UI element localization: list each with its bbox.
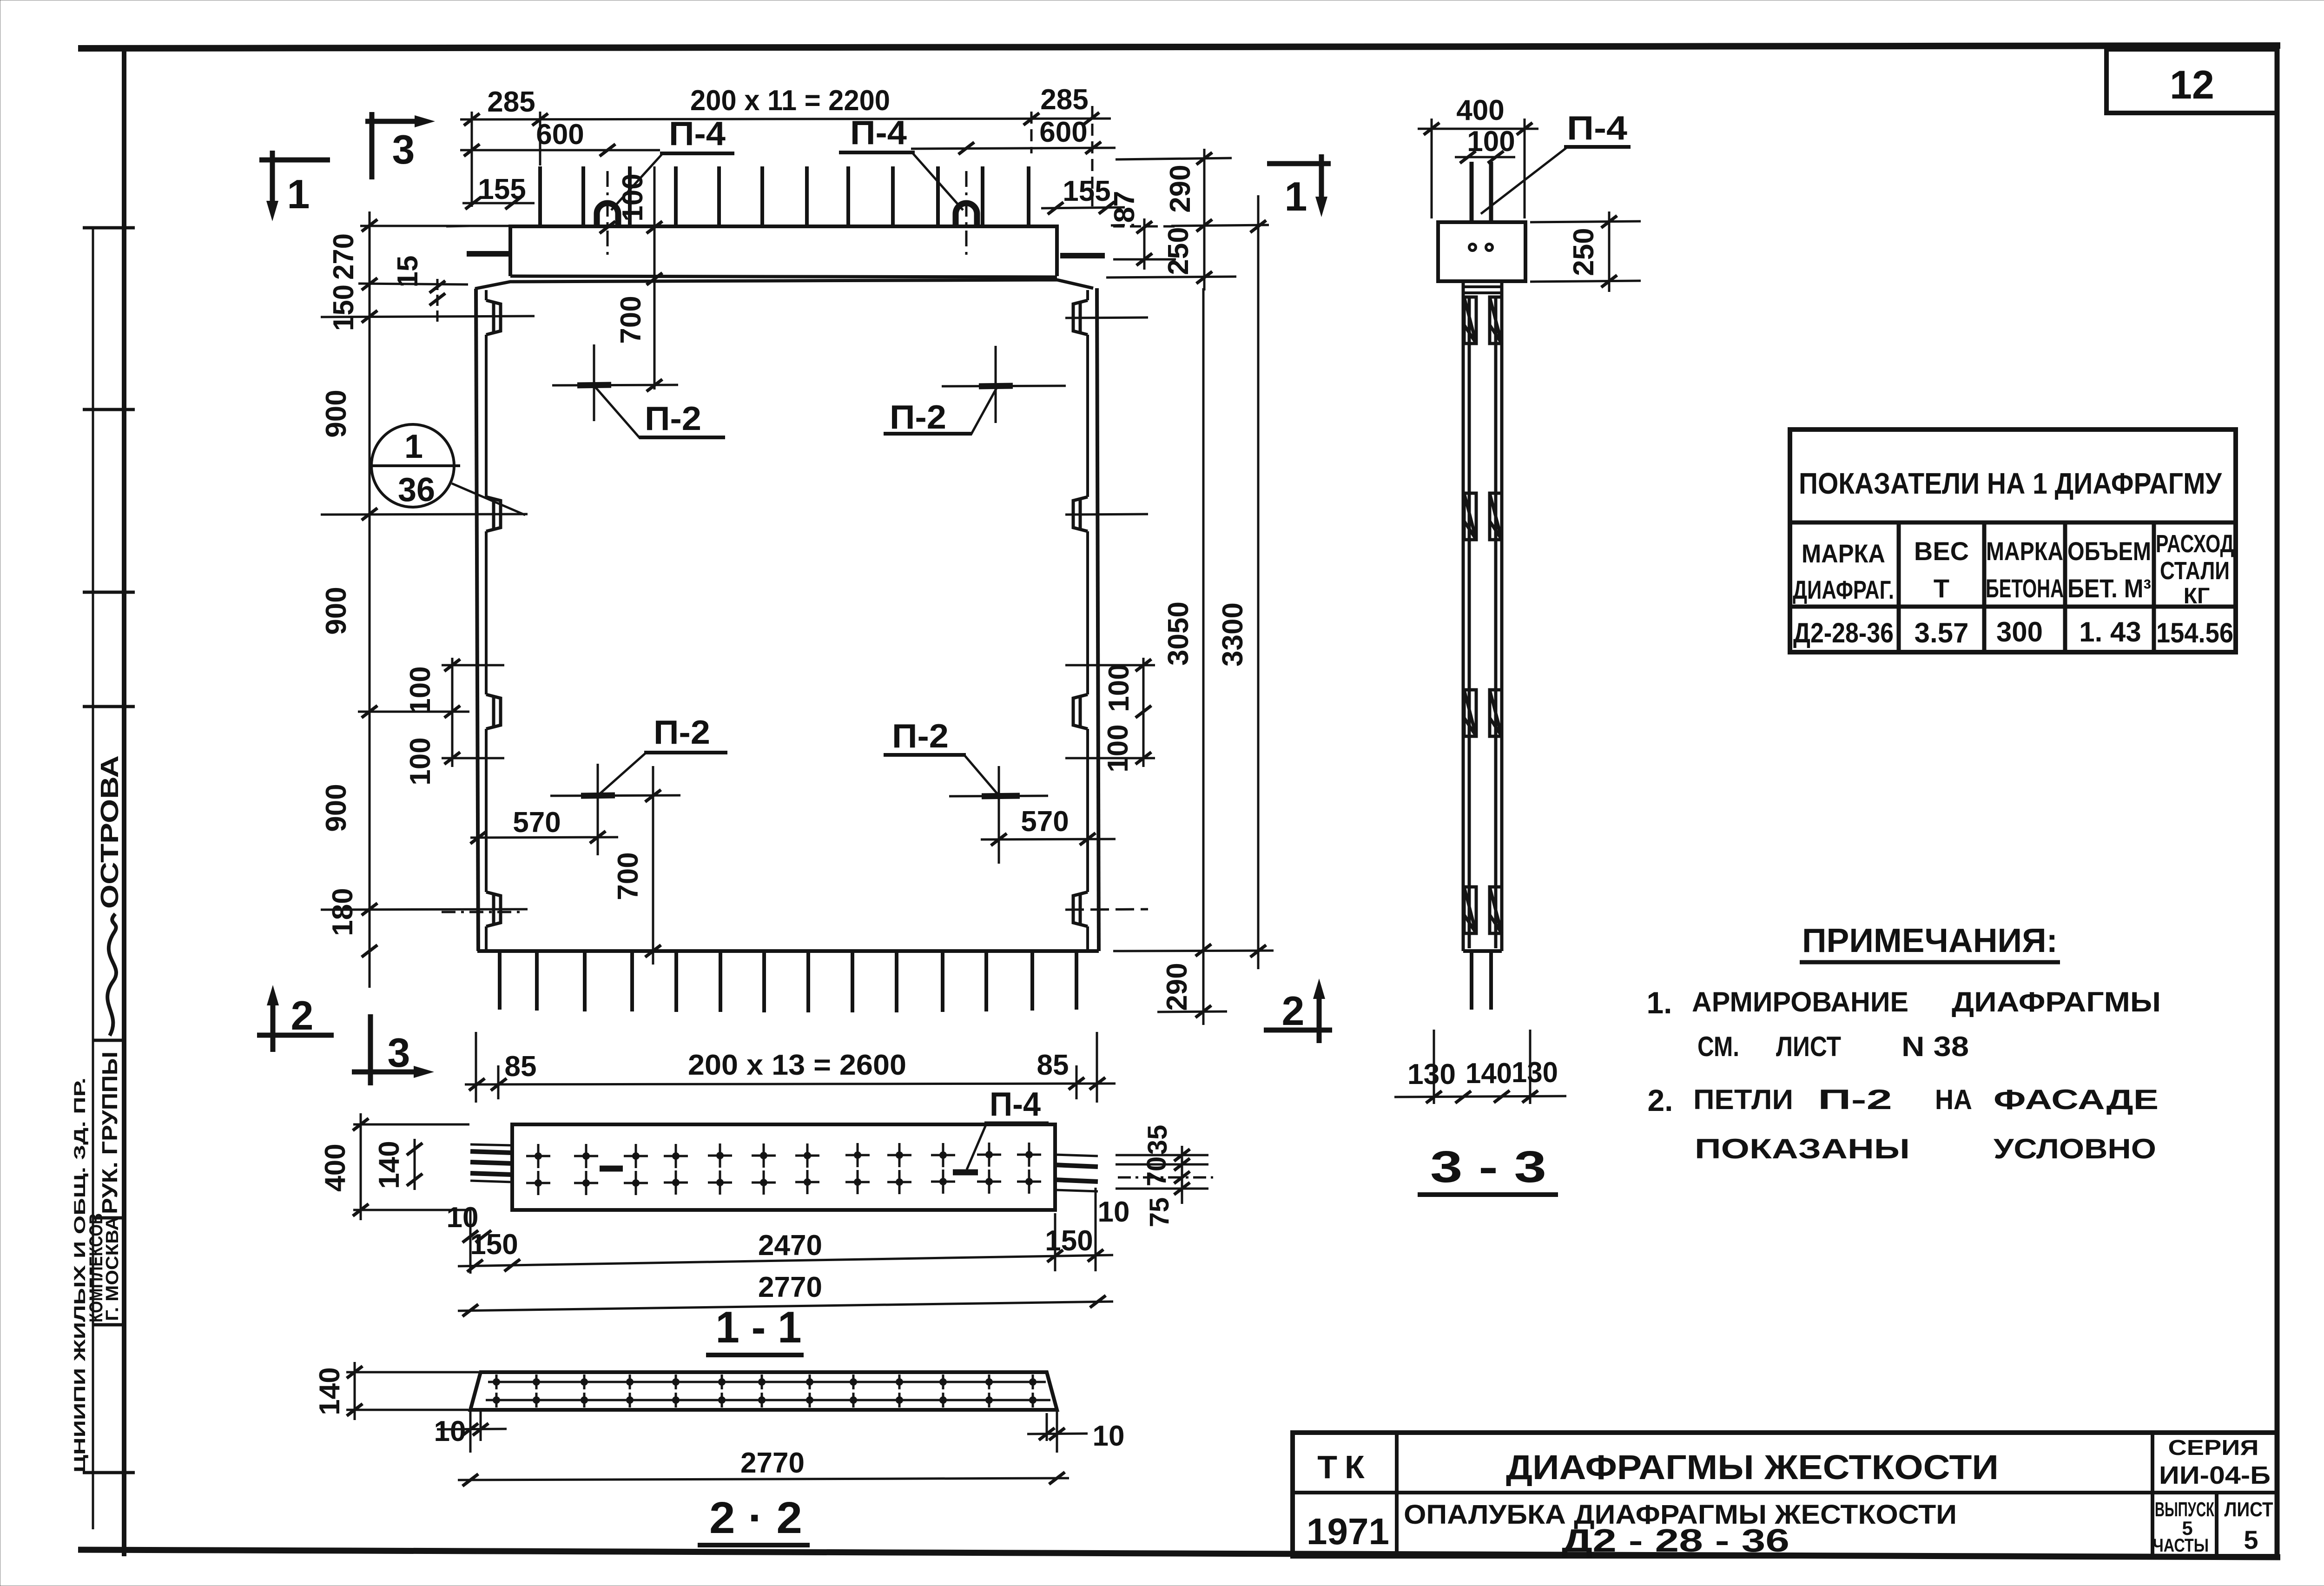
- right key 2: [1073, 497, 1088, 531]
- table col divider 2: [1982, 522, 1987, 652]
- dim 3300 ticks: [1250, 220, 1266, 232]
- 3-3 key pair 4: [1464, 887, 1502, 933]
- dim 290-250 line: [1203, 149, 1206, 291]
- label P2 bottom right underline: [884, 753, 966, 757]
- ext rebar top level: [1116, 158, 1232, 159]
- 2-2 dots row2: [493, 1393, 500, 1408]
- svg-text:285: 285: [487, 86, 535, 118]
- svg-text:РАСХОД: РАСХОД: [2156, 530, 2234, 558]
- ext line 600L end: [539, 112, 541, 165]
- svg-text:75: 75: [1144, 1197, 1175, 1228]
- label P2 top left underline: [639, 436, 725, 439]
- label P4 left leader: [611, 154, 662, 210]
- 3-3 top block: [1438, 222, 1525, 281]
- 1-1 ext right bar: [1095, 1188, 1097, 1271]
- left 100 pair ext a: [442, 664, 504, 667]
- left chain ext key1: [321, 316, 535, 317]
- 1-1 ext right edge: [1054, 1213, 1056, 1271]
- stamp cell line 1: [83, 705, 135, 708]
- svg-text:ЧАСТЬI: ЧАСТЬI: [2153, 1535, 2209, 1556]
- left stub bar beside beam: [467, 251, 508, 257]
- title block col divider 3: [2215, 1493, 2218, 1556]
- svg-text:200 x 13 = 2600: 200 x 13 = 2600: [688, 1049, 906, 1081]
- 3-3 key pair 2: [1464, 493, 1502, 540]
- svg-text:12: 12: [2170, 63, 2214, 107]
- title block col divider 1: [1395, 1433, 1399, 1556]
- top beam outline: [510, 226, 1057, 276]
- svg-text:П-4: П-4: [850, 114, 907, 152]
- dim 250 tick bottom: [1196, 271, 1212, 284]
- svg-text:1: 1: [287, 171, 310, 217]
- panel body left inner edge: [485, 290, 488, 950]
- dim row2 left ticks: [464, 144, 480, 156]
- margin inner line: [92, 228, 94, 1529]
- stamp cell line 5: [83, 1471, 135, 1474]
- svg-text:285: 285: [1040, 84, 1088, 116]
- label P2 bottom left leader: [600, 753, 645, 794]
- left key 4: [486, 892, 501, 926]
- dim 87 ticks: [1136, 221, 1152, 233]
- stamp cell line 3: [93, 1216, 124, 1220]
- svg-text:УСЛОВНО: УСЛОВНО: [1994, 1133, 2156, 1164]
- svg-text:ОСТРОВА: ОСТРОВА: [96, 755, 124, 909]
- dim 570 left line: [470, 837, 618, 838]
- svg-text:ДИАФРАГМЫ: ДИАФРАГМЫ: [1952, 986, 2161, 1018]
- svg-text:570: 570: [1021, 806, 1069, 838]
- 3-3 dim 400 ticks: [1424, 123, 1439, 135]
- 1-1 lower dim line: [458, 1255, 1113, 1266]
- 1-1 title underline: [706, 1353, 804, 1357]
- right 100 pair ext a: [1065, 664, 1155, 667]
- table col divider 3: [2063, 522, 2067, 652]
- label P4 left underline: [660, 152, 734, 155]
- loop centerline right: [965, 171, 968, 260]
- left key 3: [486, 694, 501, 729]
- 3-3 dim 250 ticks: [1601, 216, 1617, 228]
- left 100 pair line: [451, 658, 454, 767]
- ext line 285R start dashed: [1030, 112, 1033, 153]
- P2 marker bottom left: [550, 764, 680, 855]
- dim 155 right ticks: [1048, 202, 1063, 214]
- 3-3 dim 250 ext bottom: [1530, 281, 1641, 282]
- left chain ext bottom dashdot: [442, 911, 524, 913]
- svg-text:Д2 - 28 - 36: Д2 - 28 - 36: [1562, 1522, 1789, 1559]
- right 100 pair ext b: [1065, 757, 1155, 760]
- svg-text:1 - 1: 1 - 1: [716, 1302, 802, 1352]
- svg-text:3 - 3: 3 - 3: [1430, 1142, 1546, 1192]
- right stub bar beside beam: [1060, 253, 1105, 258]
- right 100 pair ticks: [1136, 659, 1151, 671]
- dim 15 ticks: [429, 281, 445, 293]
- left key 1: [486, 300, 501, 335]
- ext beam top right: [1171, 225, 1269, 226]
- svg-text:3050: 3050: [1162, 601, 1195, 666]
- 3-3 dim 100 line: [1455, 156, 1515, 159]
- section mark 3 top-left: [365, 112, 425, 179]
- dim 700 bottom ticks: [645, 790, 661, 802]
- section mark 2 bottom-right: [1264, 988, 1332, 1043]
- svg-text:150: 150: [328, 284, 360, 331]
- fold tick 3: [83, 591, 135, 594]
- svg-text:3: 3: [392, 126, 415, 172]
- svg-text:БЕТ. М³: БЕТ. М³: [2067, 574, 2151, 603]
- 3-3 dim 400 line: [1418, 128, 1538, 130]
- svg-text:1.: 1.: [1646, 985, 1672, 1020]
- svg-text:1: 1: [404, 428, 423, 465]
- 1-1 right small dims ext: [1116, 1155, 1208, 1164]
- svg-text:БЕТОНА: БЕТОНА: [1986, 574, 2064, 603]
- dim bottom ticks: [469, 1078, 485, 1090]
- 1-1 dim 400 ticks: [353, 1118, 369, 1130]
- svg-text:400: 400: [319, 1143, 351, 1191]
- ext panel bottom right: [1113, 951, 1274, 951]
- ext bottom left outer: [475, 1032, 477, 1103]
- svg-text:СЕРИЯ: СЕРИЯ: [2168, 1435, 2259, 1460]
- dim 87 ext bottom: [1113, 258, 1176, 261]
- label P2 top left leader: [595, 387, 640, 438]
- svg-text:130: 130: [1512, 1057, 1558, 1089]
- 3-3 label P4 leader: [1481, 148, 1566, 214]
- left chain ticks: [362, 219, 377, 231]
- left chain ext beam top: [360, 225, 509, 227]
- ext rebar bottom level: [1157, 1011, 1227, 1012]
- 1-1 left bars: [470, 1151, 512, 1175]
- 1-1 right small dim ticks: [1174, 1149, 1190, 1161]
- 1-1 dim 140 ticks: [407, 1143, 423, 1155]
- svg-text:130: 130: [1407, 1058, 1456, 1090]
- 1-1 dim 2770 line: [458, 1302, 1113, 1311]
- dim 700 bottom line: [652, 766, 654, 965]
- panel body right outer edge: [1097, 288, 1099, 951]
- title block col divider 2: [2151, 1433, 2154, 1556]
- dim 87 line: [1143, 218, 1146, 270]
- svg-text:ОБЪЕМ: ОБЪЕМ: [2067, 536, 2151, 566]
- svg-text:100: 100: [404, 737, 436, 785]
- left chain line: [369, 211, 371, 988]
- svg-text:900: 900: [320, 784, 352, 832]
- 1-1 body rect: [512, 1124, 1055, 1210]
- svg-text:250: 250: [1162, 227, 1195, 275]
- left border: [122, 46, 126, 1556]
- svg-text:5: 5: [2244, 1525, 2258, 1554]
- table outer frame: [1790, 430, 2236, 652]
- panel body right inner edge: [1086, 290, 1089, 950]
- dim 15 line dashed: [436, 279, 439, 322]
- 1-1 right small dims ext2: [1116, 1188, 1208, 1190]
- label P4 right underline: [839, 151, 915, 154]
- dim row1 line: [460, 119, 1111, 119]
- svg-text:ПРИМЕЧАНИЯ:: ПРИМЕЧАНИЯ:: [1802, 922, 2058, 959]
- svg-text:2 · 2: 2 · 2: [709, 1493, 802, 1543]
- dim 155 left line: [462, 202, 535, 205]
- svg-text:700: 700: [612, 852, 644, 900]
- svg-text:П-2: П-2: [1818, 1084, 1892, 1115]
- page number box: [2106, 49, 2277, 113]
- svg-text:Т: Т: [1934, 574, 1949, 603]
- svg-text:ЛИСТ: ЛИСТ: [2225, 1498, 2273, 1521]
- dim 3050 line: [1202, 288, 1205, 1025]
- dim 155 right line: [1041, 207, 1125, 208]
- svg-text:900: 900: [320, 587, 352, 634]
- svg-text:150: 150: [1045, 1225, 1093, 1257]
- svg-text:600: 600: [536, 119, 584, 151]
- notes title underline: [1800, 960, 2060, 965]
- 1-1 right bars: [1055, 1165, 1098, 1182]
- 1-1 loop section dash right: [953, 1170, 978, 1176]
- svg-text:155: 155: [478, 173, 526, 205]
- ext bottom right outer: [1096, 1032, 1098, 1103]
- svg-text:МАРКА: МАРКА: [1802, 539, 1885, 568]
- right key 4: [1073, 892, 1088, 926]
- 1-1 dim 140 line: [414, 1139, 416, 1190]
- label P2 top right underline: [884, 432, 972, 436]
- svg-text:570: 570: [513, 806, 561, 839]
- panel body left outer edge: [476, 289, 478, 951]
- label P2 top right leader: [971, 388, 997, 435]
- 1-1 right small dims dashdot: [1118, 1176, 1213, 1179]
- right border: [2275, 46, 2280, 1557]
- 2-2 dim 10 left ticks: [470, 1410, 481, 1453]
- svg-text:1. 43: 1. 43: [2079, 616, 2141, 648]
- svg-text:15: 15: [392, 256, 424, 288]
- top rebars: [540, 166, 1029, 226]
- svg-text:85: 85: [1037, 1049, 1069, 1081]
- 1-1 rebar markers row2: [526, 1171, 550, 1195]
- svg-text:200 x 11 = 2200: 200 x 11 = 2200: [690, 85, 890, 117]
- svg-text:ЛИСТ: ЛИСТ: [1776, 1031, 1841, 1062]
- table col divider 1: [1897, 522, 1901, 652]
- bottom rebars: [500, 951, 1076, 1012]
- svg-text:100: 100: [404, 666, 436, 714]
- svg-text:900: 900: [320, 390, 352, 437]
- ext bottom left bar: [497, 1065, 500, 1099]
- 3-3 dim 100 ticks: [1460, 151, 1476, 163]
- 1-1 dim 10 left ticks: [469, 1210, 472, 1274]
- dim 290 bottom ticks: [1195, 1005, 1211, 1018]
- ext beam bottom right: [1106, 277, 1236, 278]
- svg-text:Д2-28-36: Д2-28-36: [1793, 617, 1894, 648]
- svg-text:85: 85: [505, 1051, 537, 1083]
- svg-text:250: 250: [1568, 228, 1600, 276]
- 3-3 stem bottom: [1463, 949, 1502, 953]
- svg-text:3.57: 3.57: [1915, 617, 1969, 648]
- dim row2 right line: [911, 148, 1116, 149]
- title block outer: [1293, 1433, 2277, 1556]
- svg-text:N 38: N 38: [1901, 1031, 1969, 1062]
- left 100 pair ext b: [442, 757, 504, 760]
- dim row2 left line: [460, 149, 660, 152]
- 1-1 rebar markers row1: [526, 1144, 550, 1168]
- svg-text:ПОКАЗАТЕЛИ НА 1 ДИАФРАГМУ: ПОКАЗАТЕЛИ НА 1 ДИАФРАГМУ: [1799, 467, 2222, 500]
- left chain ext key3: [358, 711, 469, 713]
- svg-text:1971: 1971: [1307, 1511, 1389, 1552]
- svg-text:СМ.: СМ.: [1697, 1031, 1739, 1062]
- svg-text:ПОКАЗАНЫ: ПОКАЗАНЫ: [1695, 1133, 1910, 1164]
- svg-text:2770: 2770: [740, 1447, 805, 1479]
- P2 marker top left: [552, 344, 678, 421]
- 2-2 dim 140 ext: [346, 1372, 479, 1410]
- dim 570 right line: [981, 839, 1116, 839]
- 3-3 key pair 1: [1464, 297, 1502, 344]
- 3-3 key pair 3: [1464, 690, 1502, 736]
- svg-text:Г. МОСКВА: Г. МОСКВА: [103, 1216, 122, 1321]
- ext line right top dashed: [1091, 106, 1094, 209]
- stamp cell line 2: [93, 1039, 124, 1042]
- 3-3 bottom dim ticks: [1426, 1091, 1442, 1103]
- 3-3 label P4 underline: [1564, 145, 1631, 149]
- bottom border: [78, 1550, 2280, 1557]
- dim 100 loop line: [654, 166, 656, 390]
- dim bottom line: [465, 1084, 1116, 1084]
- 3-3 ext 400 right: [1524, 119, 1526, 218]
- 2-2 dim 140 line: [354, 1362, 356, 1420]
- svg-text:2: 2: [1282, 988, 1305, 1034]
- fold tick 1: [83, 226, 135, 230]
- svg-text:700: 700: [615, 296, 647, 344]
- 2-2 dim 140 ticks: [347, 1366, 363, 1378]
- P2 marker bottom right: [949, 766, 1048, 864]
- P2 marker top right: [942, 346, 1066, 423]
- section mark 2 bottom-left: [257, 995, 334, 1052]
- svg-text:АРМИРОВАНИЕ: АРМИРОВАНИЕ: [1692, 986, 1908, 1018]
- ext bottom right bar: [1076, 1065, 1078, 1099]
- svg-text:ЦНИИПИ ЖИЛЫХ И ОБЩ. ЗД. ПР.: ЦНИИПИ ЖИЛЫХ И ОБЩ. ЗД. ПР.: [71, 1077, 89, 1473]
- 3-3 bottom dim ext left: [1433, 1030, 1435, 1104]
- svg-text:400: 400: [1456, 94, 1504, 126]
- 2-2 dim 10 right ticks: [1047, 1410, 1057, 1453]
- svg-text:10: 10: [1093, 1420, 1125, 1452]
- 1-1 dim 400 ext: [353, 1124, 469, 1210]
- svg-text:154.56: 154.56: [2156, 617, 2233, 648]
- section mark 1 top-right: [1267, 154, 1331, 207]
- left chain ext body top: [358, 284, 468, 284]
- stamp signature: [107, 914, 116, 1036]
- 1-1 left bars thin: [470, 1144, 512, 1182]
- 2-2 plate outline: [470, 1372, 1057, 1410]
- svg-text:2.: 2.: [1647, 1083, 1673, 1117]
- svg-text:140: 140: [373, 1141, 405, 1189]
- 1-1 right bars thin: [1055, 1155, 1098, 1191]
- detail circle leader: [452, 483, 525, 515]
- 1-1 label P4 leader: [967, 1124, 986, 1170]
- svg-text:150: 150: [470, 1229, 518, 1261]
- table col divider 4: [2152, 522, 2156, 652]
- svg-text:300: 300: [1996, 616, 2043, 648]
- svg-text:П-2: П-2: [892, 718, 949, 755]
- left 100 pair ticks: [444, 659, 460, 671]
- svg-text:290: 290: [1161, 963, 1193, 1011]
- svg-text:2470: 2470: [758, 1229, 822, 1262]
- dim 3300 line: [1257, 195, 1260, 969]
- 1-1 label P4 underline: [984, 1122, 1049, 1125]
- svg-text:10: 10: [434, 1415, 466, 1447]
- right key1 ext line: [1065, 317, 1148, 318]
- ext line left top: [471, 112, 473, 207]
- 1-1 loop section dash left: [600, 1166, 623, 1172]
- svg-text:1: 1: [1285, 173, 1307, 219]
- svg-text:2770: 2770: [758, 1271, 822, 1303]
- svg-text:П-4: П-4: [669, 115, 726, 152]
- svg-text:36: 36: [398, 471, 435, 509]
- svg-text:ДИАФРАГМЫ ЖЕСТКОСТИ: ДИАФРАГМЫ ЖЕСТКОСТИ: [1506, 1448, 1999, 1487]
- dim row2 right ticks: [958, 142, 974, 154]
- svg-text:290: 290: [1164, 165, 1196, 212]
- 3-3 stem right wall: [1496, 281, 1502, 951]
- svg-text:НА: НА: [1935, 1084, 1972, 1115]
- dim 570 left ticks: [470, 832, 486, 844]
- dim 570 right ticks: [991, 833, 1007, 846]
- 1-1 dim 400 line: [360, 1113, 362, 1220]
- 3-3 stem left wall: [1463, 281, 1469, 951]
- 3-3 block dots: [1469, 244, 1476, 251]
- svg-text:РУК. ГРУППЫ: РУК. ГРУППЫ: [98, 1051, 122, 1214]
- detail circle bar: [371, 464, 460, 467]
- svg-text:ФАСАДЕ: ФАСАДЕ: [1994, 1084, 2159, 1115]
- 2-2 dim 2770 ticks: [462, 1474, 478, 1486]
- label P2 bottom right leader: [965, 756, 997, 794]
- 3-3 bottom wires: [1472, 951, 1491, 1010]
- label P4 right leader: [913, 153, 963, 210]
- 3-3 bottom dim line: [1394, 1096, 1566, 1097]
- svg-text:ПЕТЛИ: ПЕТЛИ: [1693, 1084, 1793, 1115]
- left stub centerline: [446, 226, 469, 226]
- svg-text:270: 270: [328, 233, 360, 280]
- svg-text:П-4: П-4: [1567, 110, 1627, 147]
- table title row divider: [1790, 521, 2236, 525]
- dim 290 top ticks: [1196, 152, 1212, 165]
- dim row1 ticks: [464, 113, 480, 126]
- right key2 ext line: [1065, 514, 1148, 515]
- svg-text:П-2: П-2: [654, 714, 710, 751]
- lifting loop P4 right: [956, 203, 977, 227]
- detail circle: [371, 424, 454, 507]
- 3-3 ext 400 left: [1431, 119, 1433, 218]
- 3-3 dim 250 ext top: [1530, 221, 1641, 222]
- 3-3 neck lines: [1463, 287, 1502, 293]
- label P2 bottom left underline: [644, 751, 727, 754]
- svg-text:600: 600: [1039, 116, 1087, 148]
- svg-text:100: 100: [1467, 126, 1515, 158]
- table header row divider: [1790, 605, 2236, 609]
- svg-text:ТК: ТК: [1317, 1449, 1372, 1485]
- beam bottom edge: [510, 276, 1057, 277]
- panel bottom edge: [477, 949, 1099, 953]
- 3-3 title underline: [1418, 1192, 1558, 1197]
- 2-2 title underline: [698, 1543, 810, 1547]
- right stub centerline: [1111, 225, 1134, 225]
- svg-text:ВЕС: ВЕС: [1914, 536, 1969, 566]
- svg-text:П-4: П-4: [990, 1086, 1041, 1123]
- right key 3: [1073, 694, 1088, 729]
- right key4 ext line: [1065, 909, 1148, 910]
- svg-text:100: 100: [1103, 664, 1135, 712]
- dim 100 loop ticks: [600, 221, 615, 233]
- svg-text:100: 100: [1102, 724, 1134, 772]
- 1-1 dim 2770 ticks: [462, 1304, 478, 1316]
- svg-text:ИИ-04-Б: ИИ-04-Б: [2159, 1461, 2271, 1489]
- stamp cell line 4: [93, 1323, 124, 1327]
- dim 3050 ticks: [1195, 944, 1211, 956]
- svg-text:2: 2: [291, 992, 314, 1038]
- dim 700 top ticks: [647, 273, 662, 285]
- svg-text:35: 35: [1142, 1125, 1173, 1155]
- svg-text:МАРКА: МАРКА: [1986, 536, 2063, 566]
- svg-text:3: 3: [388, 1030, 410, 1076]
- top border: [78, 46, 2280, 48]
- svg-text:3300: 3300: [1217, 602, 1249, 667]
- 2-2 inner lines: [486, 1382, 1050, 1400]
- left key 2: [486, 497, 501, 531]
